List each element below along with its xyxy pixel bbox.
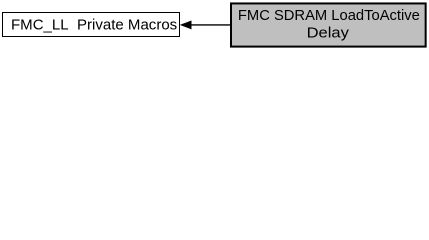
- node box: FMC_LL Private Macros: [3, 13, 180, 37]
- arrowhead pointing left at FMC_LL Private Macros: [181, 21, 192, 29]
- wire: edge line from grey node to arrowhead: [190, 24, 230, 26]
- svg-text:FMC_LL Private Macros: FMC_LL Private Macros: [11, 18, 177, 34]
- svg-text:FMC SDRAM LoadToActive: FMC SDRAM LoadToActive: [238, 8, 420, 24]
- node box (current, grey): FMC SDRAM LoadToActive Delay: [231, 3, 426, 46]
- svg-text:Delay: Delay: [307, 26, 350, 42]
